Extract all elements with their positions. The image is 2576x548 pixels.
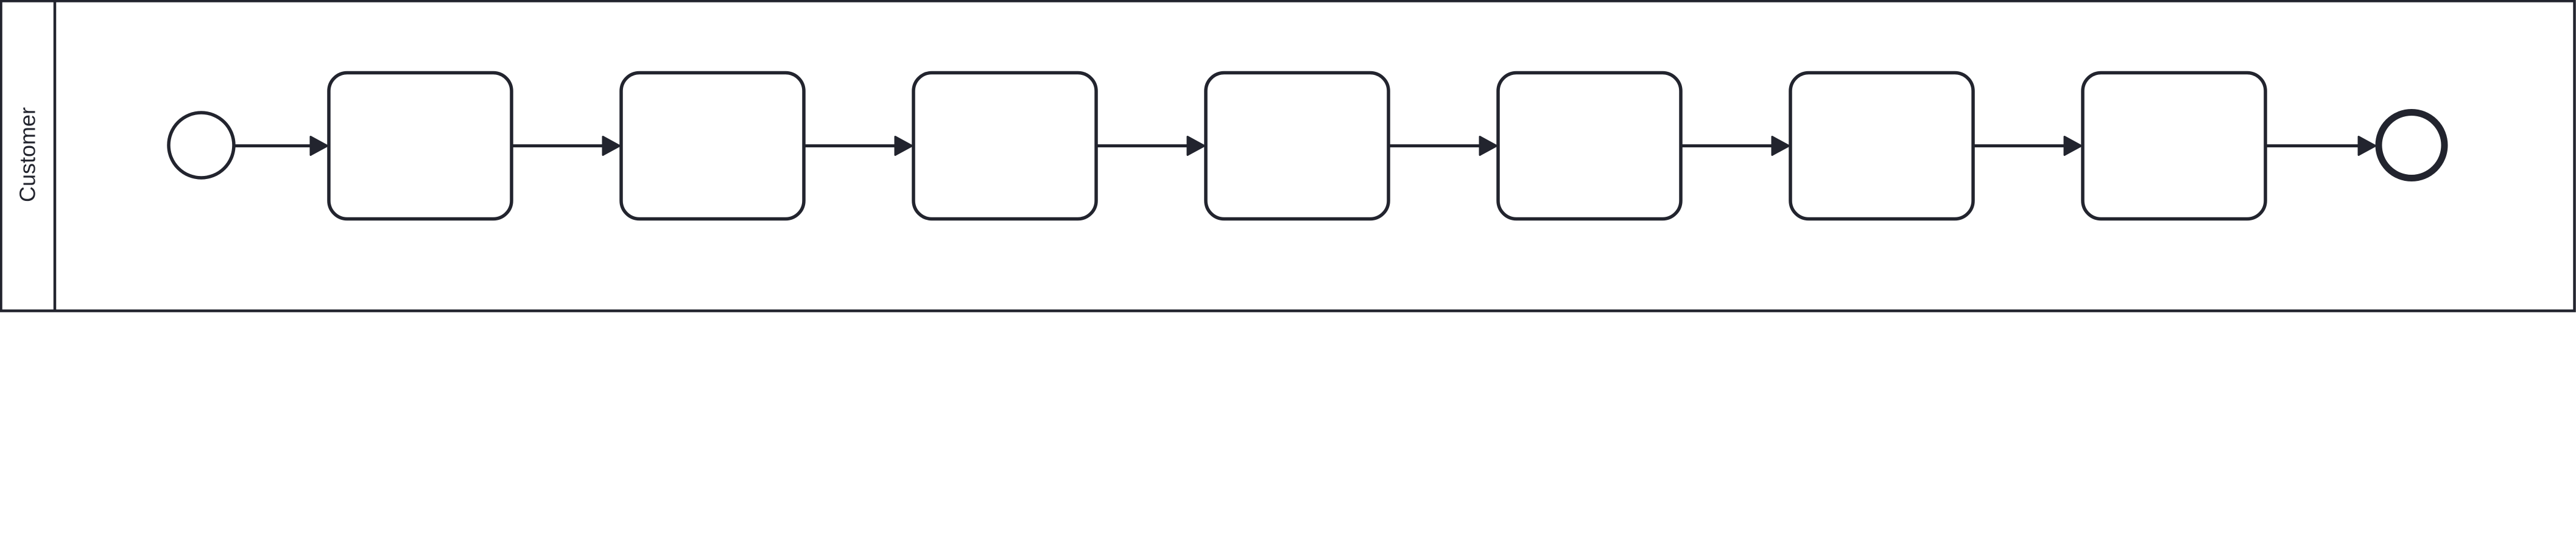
wire task2->task3 (805, 144, 898, 147)
task 5 (1498, 73, 1681, 219)
task 4 (1206, 73, 1388, 219)
task 6 (1790, 73, 1973, 219)
arrowhead task1->task2 (603, 137, 620, 155)
arrowhead task5->task6 (1772, 137, 1789, 155)
task 7 (2083, 73, 2265, 219)
wire task3->task4 (1097, 144, 1190, 147)
wire task1->task2 (513, 144, 605, 147)
task 3 (913, 73, 1096, 219)
arrowhead task4->task5 (1480, 137, 1497, 155)
end event (2379, 113, 2444, 178)
wire task6->task7 (1974, 144, 2067, 147)
arrowhead task2->task3 (895, 137, 912, 155)
task 2 (621, 73, 804, 219)
wire task4->task5 (1390, 144, 1482, 147)
wire task7->end (2267, 144, 2361, 147)
arrowhead start->task1 (311, 137, 328, 155)
arrowhead task6->task7 (2064, 137, 2082, 155)
start event (169, 113, 234, 178)
wire task5->task6 (1682, 144, 1775, 147)
pool Customer (participant frame) (1, 1, 2575, 311)
task 1 (329, 73, 512, 219)
arrowhead task3->task4 (1188, 137, 1205, 155)
svg-text:Customer: Customer (15, 107, 40, 202)
pool label band divider (54, 1, 57, 311)
wire start->task1 (234, 144, 313, 147)
arrowhead task7->end (2359, 137, 2376, 155)
